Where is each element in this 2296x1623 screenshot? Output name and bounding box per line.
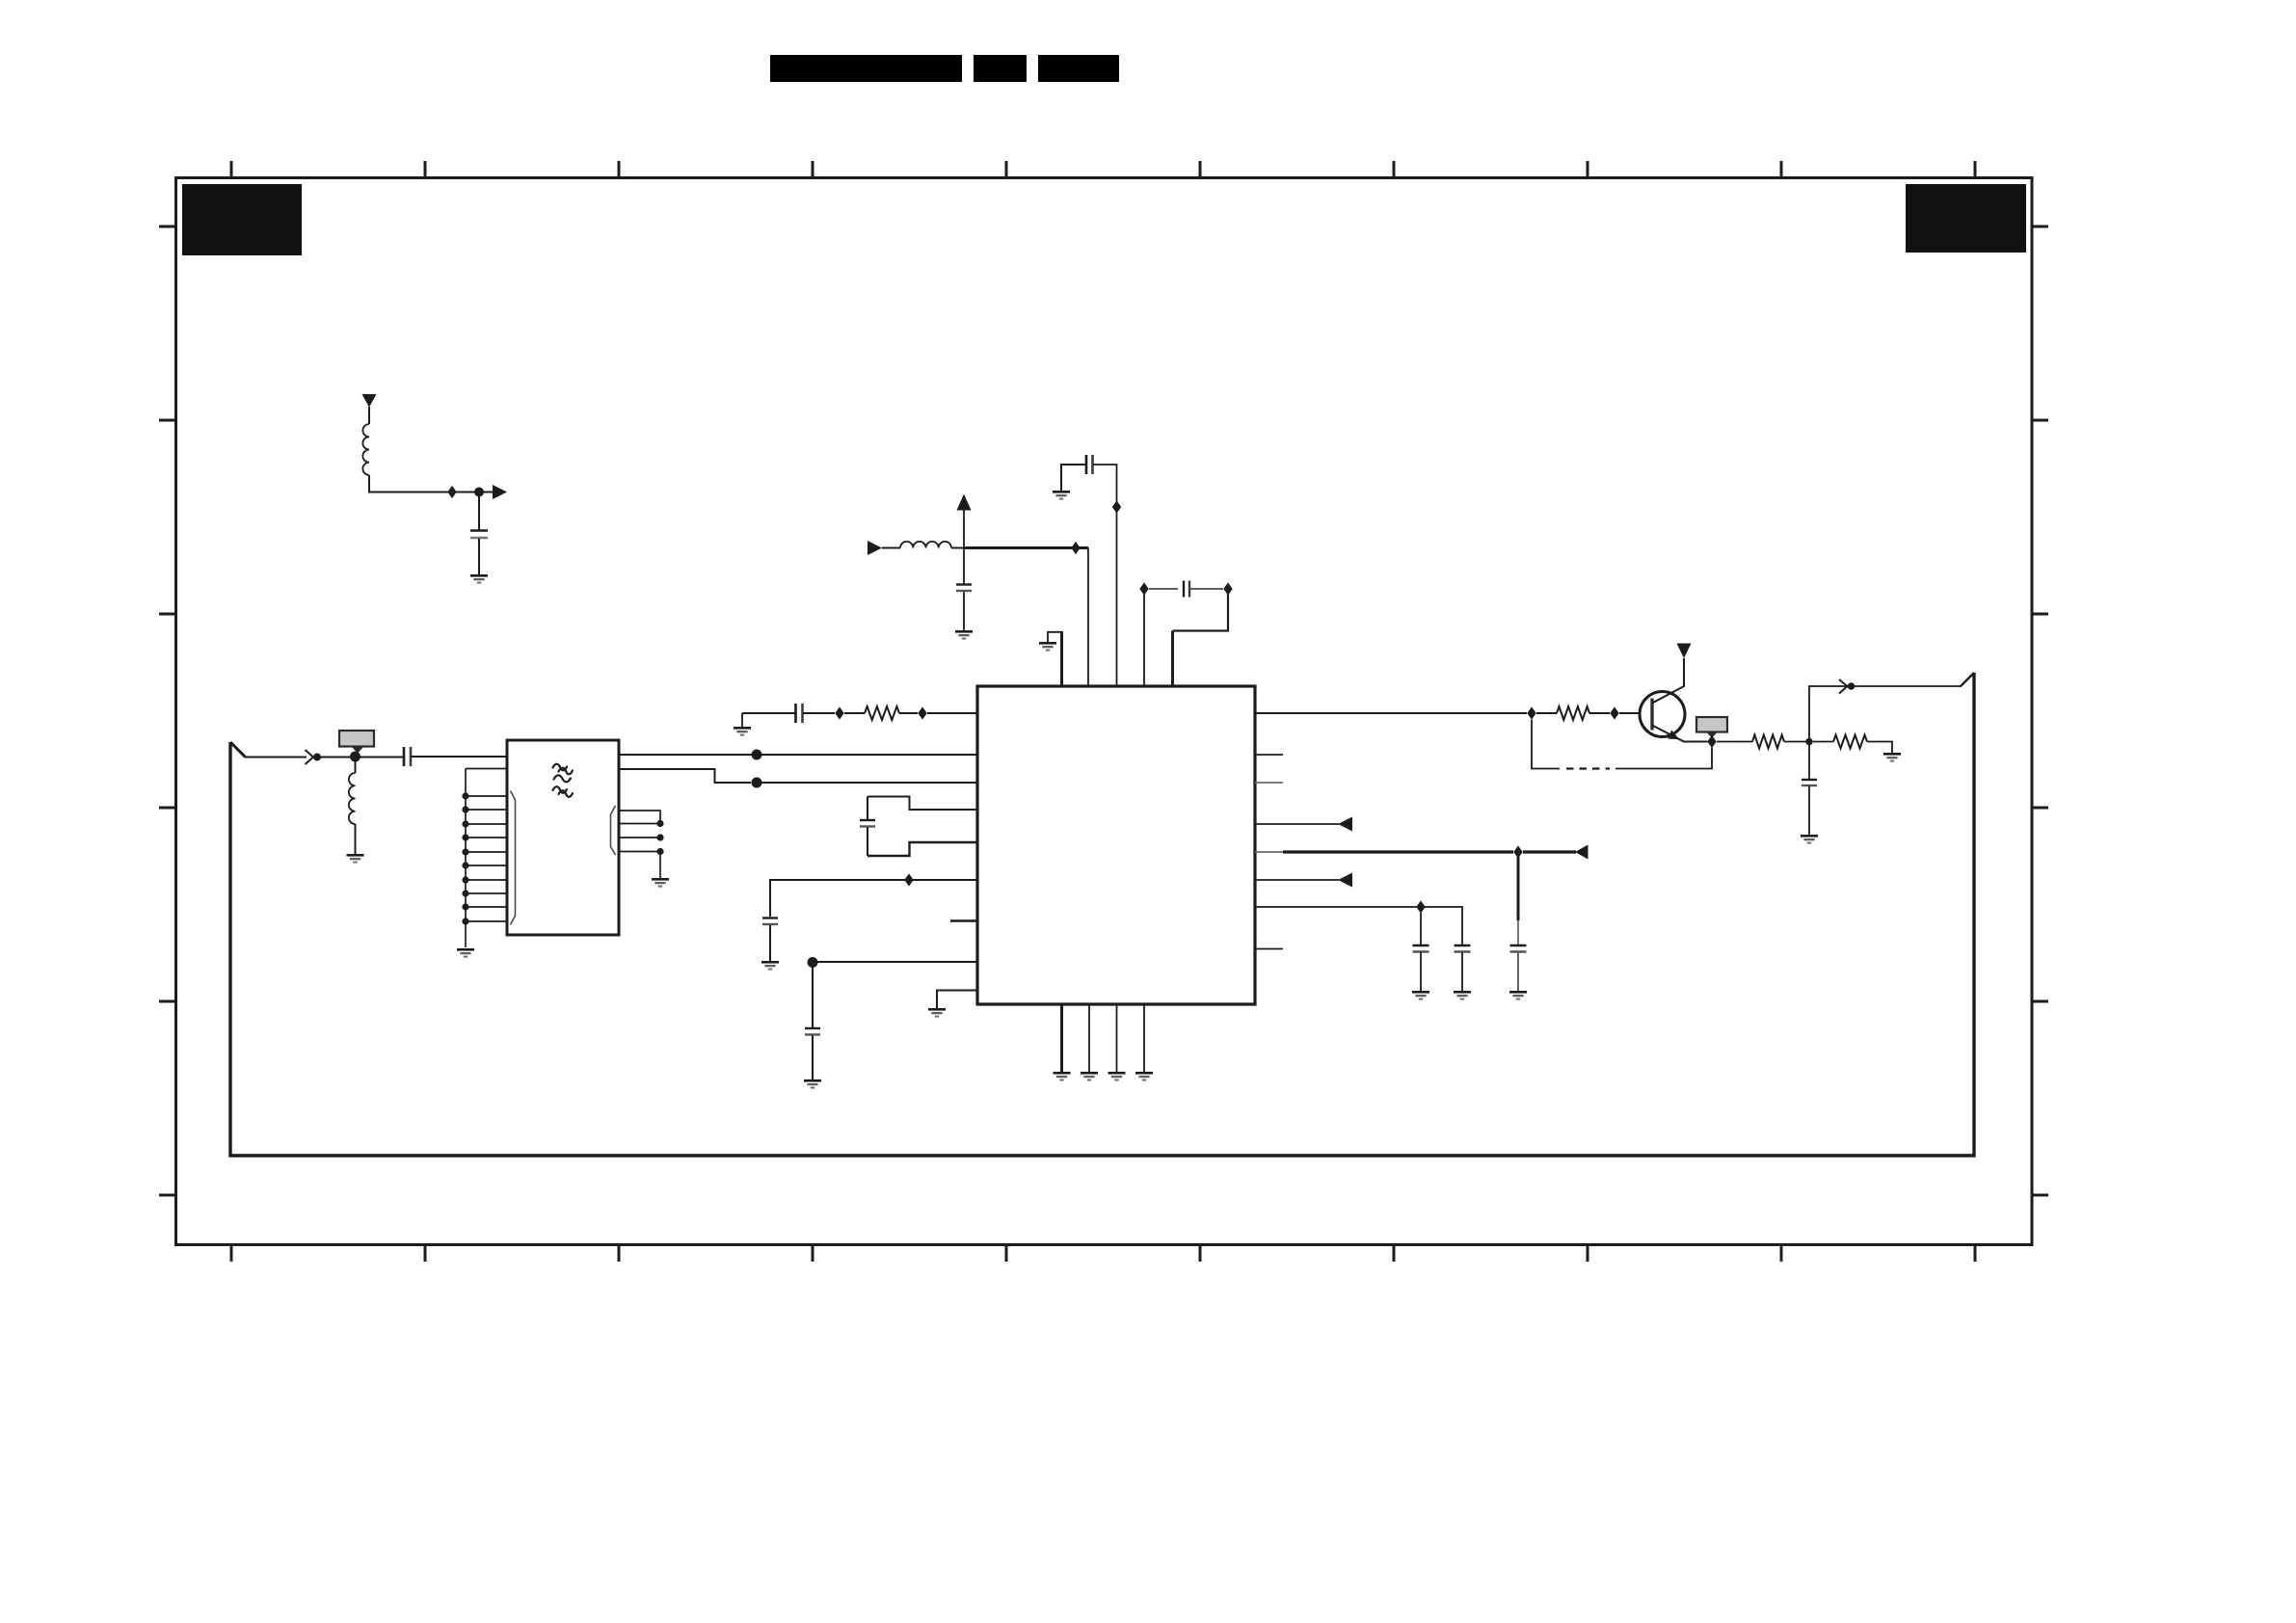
wire [813,961,977,963]
ground [955,630,973,640]
filter pin junction dots [462,792,468,924]
ground [1081,1072,1098,1081]
node diamond [1112,500,1121,513]
wire [769,925,771,961]
node diamond [918,706,926,719]
node diamond [447,486,456,498]
wire [1060,1004,1063,1072]
wire [812,1035,814,1079]
signal arrow [868,541,882,555]
node dot [752,778,762,788]
node diamond [1527,706,1535,719]
node diamond [1139,582,1148,595]
ground [1135,1072,1153,1081]
node dot [808,957,818,968]
capacitor C1 [470,529,488,532]
power symbol (down triangle) [362,394,377,408]
wire [1813,741,1833,743]
wire [1461,952,1463,991]
wire [1088,1004,1090,1072]
wire [1255,823,1339,825]
label box [339,731,374,747]
wire [742,712,796,714]
corner label block top-left (redacted) [182,184,302,255]
wire [937,991,977,1009]
wire [317,757,404,758]
signal arrow (open) [1839,679,1848,694]
ground [1053,491,1070,500]
ground [1412,991,1429,1000]
node diamond [904,873,913,886]
wire [1143,594,1145,686]
node diamond [1071,542,1080,554]
wire [1808,745,1810,779]
wire [355,757,357,773]
wire [1808,786,1810,836]
wire stub [1255,948,1283,950]
feedback bus left kink [230,742,246,758]
label box [1696,717,1727,732]
wire [1116,1004,1118,1072]
capacitor C4 [956,583,972,585]
filter pin bracket right [611,806,616,855]
wire [1517,857,1520,920]
wire [757,782,977,784]
transistor Q1 [1640,692,1685,737]
wire [411,756,507,758]
capacitor C3 [794,704,797,723]
ground [1509,991,1527,1000]
title text bar 2 (redacted) [974,55,1027,82]
filter right pin dots [656,820,663,855]
wire [1143,1004,1145,1072]
ground [928,1008,946,1018]
ground [741,713,743,727]
ground [1108,1072,1126,1081]
wire [1589,712,1610,714]
ground [1801,835,1818,844]
wire (thick) [1283,850,1513,853]
node dot [313,754,321,761]
power symbol (down triangle) [1677,644,1692,659]
wire [963,548,965,585]
wire [1532,720,1560,769]
IC U1 [977,686,1255,1004]
title text bar 3 (redacted) [1038,55,1119,82]
wire [1093,465,1117,686]
wire [844,712,865,714]
resistor R3 [1752,735,1784,749]
ground [652,878,669,888]
feedback bus wire [230,673,1974,1156]
signal arrow [1575,845,1589,860]
wire [478,492,480,531]
filter left pin bus wires [466,769,507,948]
ground [1883,753,1901,762]
node dot [474,488,484,497]
wire [1536,712,1557,714]
ground [1454,991,1471,1000]
wire [1420,913,1422,945]
wire [803,712,835,714]
wire [951,547,964,549]
wire [1517,920,1519,945]
ground [1054,1072,1071,1081]
signal arrow (open) [306,750,314,764]
filter right pin wires [619,811,660,878]
signal arrow [1338,873,1352,888]
wire filter out A [619,754,752,756]
ground [347,854,364,864]
node diamond [1223,582,1232,595]
wire [1061,465,1085,491]
wire [1173,594,1229,631]
wire [757,754,977,756]
capacitor C12 [1510,945,1527,946]
node diamond [1416,900,1425,913]
wire [479,492,494,493]
wire [245,757,307,758]
wire [867,828,868,857]
wire [1717,741,1752,743]
corner label block top-right (redacted) [1906,184,2026,253]
SAW filter FL1 body [507,740,619,935]
node dot [1848,682,1855,690]
node dot [1805,738,1813,746]
wire [1809,686,1962,742]
wire [1420,952,1422,991]
node dot [350,752,360,762]
wire [478,539,480,575]
wire [868,797,977,811]
resistor R1 [865,706,899,720]
ground [761,961,779,971]
wire [1060,631,1063,686]
wire [1867,742,1892,754]
inductor L3 [900,542,951,548]
resistor R2 [1557,706,1589,720]
filter pin bracket left [511,791,516,925]
wire stub [1255,782,1283,784]
capacitor C10 [1413,945,1429,946]
wire stub [1255,754,1283,756]
wire [1619,712,1641,714]
wire [1171,631,1174,687]
capacitor C6 [1183,581,1185,598]
node diamond [1513,845,1522,858]
node diamond [1610,706,1618,719]
wire filter out B [619,769,751,783]
capacitor C7 [860,819,875,821]
wire [1523,850,1576,853]
wire [927,712,977,714]
title text bar (redacted) [770,55,962,82]
wire (dashed) [1566,767,1610,769]
capacitor C9 [805,1027,820,1029]
resistor R4 [1833,735,1867,749]
wire stub [950,919,977,921]
signal arrow [1338,817,1352,832]
wire [1189,588,1223,590]
signal arrow [493,485,507,499]
wire [770,880,977,917]
feedback bus right kink [1961,673,1974,686]
filter wave marks [553,764,574,797]
capacitor C5 [1085,455,1088,474]
capacitor C11 [1455,945,1471,946]
node diamond [835,706,843,719]
ground [804,1079,821,1089]
emitter arrow [1668,730,1679,739]
wire [1255,712,1527,714]
emitter wire [1652,726,1708,742]
capacitor C13 [1802,779,1817,781]
wire [1149,588,1178,590]
wire [369,475,474,492]
wire [899,712,918,714]
ground [1039,642,1056,652]
wire [1087,548,1089,687]
ground [470,574,488,584]
wire [882,547,900,549]
capacitor C8 [762,917,778,918]
inductor L2 [349,773,356,824]
wire [355,824,357,854]
wire [1517,952,1519,991]
node diamond [1707,735,1716,748]
inductor L1 [362,424,369,475]
wire [1784,741,1806,743]
wire [868,842,977,856]
wire [812,962,814,1027]
wire [1255,879,1339,881]
node dot [752,750,762,760]
wire [963,592,965,630]
capacitor C2 [403,747,406,766]
wire [867,797,868,820]
wire stub [1255,851,1283,853]
wire [368,407,370,424]
wire [1615,748,1712,769]
wire [1255,907,1462,945]
ground [457,948,474,958]
power symbol (up triangle) [957,494,972,511]
wire (supply rail) [964,546,1088,549]
collector wire [1652,658,1684,704]
